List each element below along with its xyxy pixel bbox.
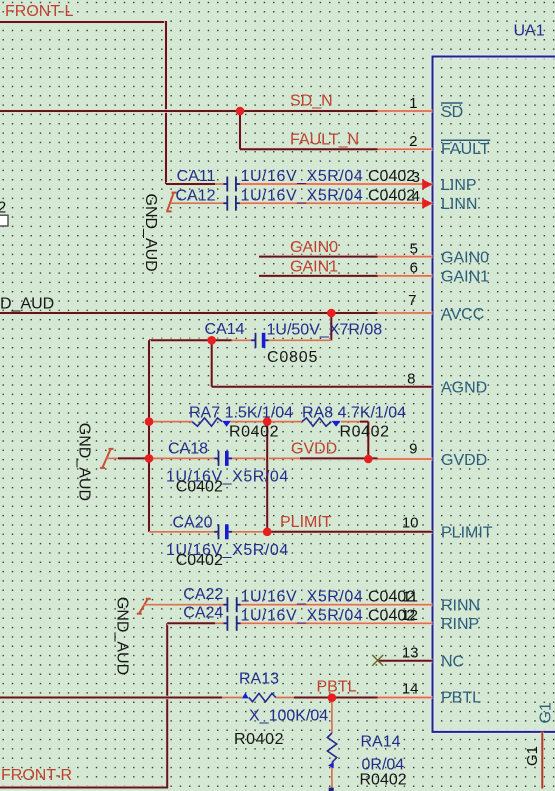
- svg-text:1U/16V_X5R/04: 1U/16V_X5R/04: [241, 187, 364, 204]
- svg-text:RA7 1.5K/1/04: RA7 1.5K/1/04: [189, 405, 293, 422]
- pin 2 FAULT: [378, 148, 433, 151]
- net label GND_AUD vertical middle: [76, 423, 93, 501]
- pin number 6: [410, 260, 418, 277]
- svg-text:CA18: CA18: [168, 441, 208, 458]
- IC UA1 body outline: [433, 57, 555, 732]
- wire RA14 top lead: [331, 698, 333, 733]
- junction node CA14/AGND: [207, 336, 216, 345]
- pin number 10: [402, 515, 419, 532]
- svg-text:8: 8: [407, 371, 415, 388]
- svg-text:CA20: CA20: [172, 514, 212, 531]
- pin name RINP: [441, 616, 479, 633]
- wire AVCC net from left: [0, 311, 378, 315]
- wire CA20 leads PLIMIT row: [149, 531, 267, 533]
- value RA14 0R/04: [362, 756, 405, 773]
- wire CA14 row left: [149, 338, 251, 342]
- svg-text:R0402: R0402: [360, 771, 407, 788]
- svg-text:CA11: CA11: [177, 168, 216, 185]
- wire FRONT-L vertical drop: [164, 21, 168, 184]
- wire AGND branch to pin 8: [212, 340, 433, 386]
- footprint CA22 C0402: [368, 589, 415, 606]
- svg-text:C0402: C0402: [368, 187, 415, 204]
- svg-text:1: 1: [409, 95, 417, 112]
- wire CA14 right lead: [269, 339, 332, 341]
- pin 6 GAIN1: [378, 274, 433, 277]
- svg-text:7: 7: [408, 292, 416, 309]
- designator CA20: [172, 514, 212, 531]
- wire RA13 right lead and to pin 14: [276, 697, 378, 699]
- pin number 9: [409, 441, 417, 458]
- wire FRONT-R vertical and bottom: [0, 623, 168, 787]
- svg-text:G1: G1: [538, 702, 555, 723]
- svg-text:GAIN0: GAIN0: [441, 249, 489, 266]
- svg-text:1U/50V_X7R/08: 1U/50V_X7R/08: [267, 322, 383, 339]
- svg-text:2: 2: [409, 133, 417, 150]
- pin number 7: [408, 292, 416, 309]
- pin name GVDD: [441, 452, 487, 469]
- pin 10 PLIMIT: [378, 530, 433, 533]
- capacitor CA14: [251, 333, 268, 348]
- resistor RA13: [242, 693, 276, 702]
- svg-text:RA13: RA13: [239, 671, 279, 688]
- pin name PBTL: [441, 689, 481, 706]
- net label D_AUD cut at left edge: [0, 296, 54, 313]
- footprint CA24 C0402: [368, 607, 415, 624]
- footprint CA12 C0402: [368, 187, 415, 204]
- wire GAIN1 net: [259, 274, 378, 278]
- value CA20 1U/16V_X5R/04: [166, 542, 289, 559]
- pin 9 GVDD: [378, 458, 433, 461]
- svg-text:RA8 4.7K/1/04: RA8 4.7K/1/04: [302, 405, 406, 422]
- wire RA8 right lead to corner: [341, 422, 368, 459]
- footprint RA7 R0402: [229, 423, 279, 440]
- junction node mid rail/PLIMIT: [263, 528, 272, 537]
- pin number 12: [401, 607, 418, 624]
- svg-text:13: 13: [402, 645, 419, 662]
- pin 1 SD: [378, 110, 433, 113]
- svg-text:SD: SD: [441, 104, 463, 121]
- net port FRONT-R label: [1, 767, 72, 784]
- net label SD_N: [290, 93, 333, 110]
- junction node rail/GVDD row: [145, 454, 154, 463]
- value CA11 1U/16V_X5R/04: [241, 168, 364, 185]
- pin 12 RINP: [241, 622, 433, 625]
- pin name FAULT with overline: [441, 140, 490, 158]
- svg-text:CA14: CA14: [204, 321, 244, 338]
- ground symbol GND_AUD bottom: [137, 599, 151, 614]
- net label FAULT_N: [290, 131, 359, 148]
- capacitor CA20: [214, 524, 232, 539]
- pin name NC: [441, 654, 464, 671]
- svg-text:1U/16V_X5R/04: 1U/16V_X5R/04: [241, 589, 364, 606]
- wire CA22 left lead from ground: [144, 604, 224, 606]
- svg-text:PBTL: PBTL: [317, 679, 357, 696]
- svg-text:GAIN1: GAIN1: [441, 269, 489, 286]
- wire CA18 leads GVDD row: [149, 457, 378, 459]
- pin number 8: [407, 371, 415, 388]
- svg-text:FAULT: FAULT: [441, 141, 490, 158]
- designator CA12: [175, 187, 215, 204]
- svg-text:R0402: R0402: [234, 731, 284, 748]
- wire CA24 left segment: [167, 621, 223, 625]
- junction node RA7/RA8 mid: [263, 417, 272, 426]
- no-ERC marker pin 13: [372, 655, 383, 666]
- ground symbol GND_AUD middle: [100, 449, 114, 468]
- pin number 11: [402, 589, 418, 606]
- resistor RA14: [327, 733, 336, 768]
- wire FRONT-L horizontal: [0, 20, 166, 24]
- svg-text:2: 2: [0, 200, 6, 217]
- capacitor CA24: [223, 616, 240, 631]
- wire CA11 left segment: [166, 182, 223, 186]
- ground symbol GND_AUD top: [166, 193, 176, 212]
- svg-text:3: 3: [412, 169, 420, 186]
- wire RA14 bottom lead: [331, 763, 333, 791]
- resistor RA7: [192, 418, 231, 427]
- footprint CA11 C0402: [368, 168, 415, 185]
- connector stub cut at left edge: [0, 200, 8, 226]
- svg-text:PLIMIT: PLIMIT: [441, 525, 493, 542]
- wire left rail vertical: [147, 340, 151, 532]
- input arrow pin 3: [422, 179, 433, 190]
- designator label UA1: [514, 23, 545, 40]
- svg-text:PLIMIT: PLIMIT: [280, 514, 332, 531]
- footprint CA18 C0402: [176, 479, 223, 496]
- svg-text:5: 5: [410, 240, 418, 257]
- svg-text:GVDD: GVDD: [291, 440, 337, 457]
- wire AVCC branch down to CA14: [329, 313, 333, 340]
- pin name SD with overline: [441, 103, 463, 121]
- svg-text:GND_AUD: GND_AUD: [114, 597, 131, 675]
- input arrow pin 4: [422, 198, 433, 209]
- svg-text:FAULT_N: FAULT_N: [290, 131, 359, 148]
- capacitor CA22: [223, 597, 240, 612]
- pin name PLIMIT: [441, 525, 493, 542]
- designator CA22: [183, 586, 223, 603]
- junction node RA8/GVDD: [364, 455, 373, 464]
- svg-text:CA22: CA22: [183, 586, 223, 603]
- pin 13 NC: [378, 659, 433, 662]
- capacitor CA18: [214, 451, 232, 466]
- value CA18 1U/16V_X5R/04: [166, 468, 289, 485]
- svg-text:D_AUD: D_AUD: [0, 296, 54, 313]
- svg-text:1U/16V_X5R/04: 1U/16V_X5R/04: [241, 168, 364, 185]
- net label GND_AUD vertical bottom: [114, 597, 131, 675]
- svg-text:G1: G1: [524, 746, 541, 766]
- svg-text:9: 9: [409, 441, 417, 458]
- wire pin 13 stub dark overlay: [378, 659, 433, 663]
- wire CA12 left lead from ground: [171, 202, 224, 204]
- svg-text:LINP: LINP: [441, 177, 477, 194]
- svg-text:6: 6: [410, 260, 418, 277]
- svg-text:PBTL: PBTL: [441, 689, 481, 706]
- value CA12 1U/16V_X5R/04: [241, 187, 364, 204]
- designator RA14: [361, 734, 401, 751]
- net port FRONT-L label: [5, 3, 74, 20]
- svg-text:C0402: C0402: [176, 479, 223, 496]
- pin name AGND: [441, 380, 487, 397]
- svg-text:GAIN0: GAIN0: [290, 239, 338, 256]
- net label GVDD: [291, 440, 337, 457]
- footprint CA14 C0805: [267, 349, 318, 366]
- svg-text:CA24: CA24: [183, 605, 223, 622]
- svg-text:RA14: RA14: [361, 734, 401, 751]
- pin number G1 vertical: [524, 746, 541, 766]
- designator CA11: [177, 168, 216, 185]
- wire PBTL net from left: [0, 696, 242, 700]
- pin 4 LINN: [240, 202, 433, 205]
- pin number 3: [412, 169, 420, 186]
- svg-text:FRONT-L: FRONT-L: [5, 3, 74, 20]
- pin 11 RINN: [241, 603, 433, 606]
- junction node rail/RA7: [145, 417, 154, 426]
- pin G1 bottom: [541, 732, 544, 789]
- wire mid rail vertical: [265, 422, 269, 532]
- svg-text:GAIN1: GAIN1: [290, 258, 338, 275]
- svg-text:R0402: R0402: [229, 423, 279, 440]
- pin 3 LINP: [240, 183, 433, 186]
- designator value RA7: [189, 405, 293, 422]
- pin 8 AGND: [378, 385, 433, 388]
- capacitor CA12: [223, 196, 240, 211]
- svg-text:AVCC: AVCC: [441, 306, 484, 323]
- designator CA18: [168, 441, 208, 458]
- net label GND_AUD vertical top: [142, 194, 159, 272]
- wire RA7 leads: [149, 421, 302, 423]
- pin name RINN: [441, 598, 480, 615]
- bottom edge capacitor plate stub: [329, 788, 334, 791]
- pin number 4: [412, 188, 420, 205]
- wire ground middle to rail: [107, 457, 150, 459]
- net label GAIN0: [290, 239, 338, 256]
- pin name LINP: [441, 177, 477, 194]
- svg-text:1U/16V_X5R/04: 1U/16V_X5R/04: [241, 607, 364, 624]
- designator RA13: [239, 671, 279, 688]
- pin name LINN: [441, 196, 477, 213]
- svg-text:C0402: C0402: [368, 168, 415, 185]
- pin number 14: [402, 680, 419, 697]
- capacitor CA11: [223, 177, 240, 192]
- svg-text:GND_AUD: GND_AUD: [76, 423, 93, 501]
- svg-text:LINN: LINN: [441, 196, 477, 213]
- pin name GAIN0: [441, 249, 489, 266]
- svg-text:14: 14: [402, 680, 419, 697]
- pin number 1: [409, 95, 417, 112]
- svg-text:UA1: UA1: [514, 23, 545, 40]
- resistor RA8: [302, 418, 341, 427]
- pin 7 AVCC: [378, 312, 433, 315]
- designator CA14: [204, 321, 244, 338]
- value CA24 1U/16V_X5R/04: [241, 607, 364, 624]
- svg-text:11: 11: [402, 589, 418, 606]
- svg-text:12: 12: [401, 607, 418, 624]
- pin number 2: [409, 133, 417, 150]
- pin number 13: [402, 645, 419, 662]
- pin number 5: [410, 240, 418, 257]
- wire PLIMIT to pin 10: [267, 530, 432, 534]
- svg-text:SD_N: SD_N: [290, 93, 333, 110]
- pin 14 PBTL: [378, 696, 433, 699]
- svg-text:X_100K/04: X_100K/04: [249, 708, 328, 725]
- designator CA24: [183, 605, 223, 622]
- value CA22 1U/16V_X5R/04: [241, 589, 364, 606]
- svg-text:RINP: RINP: [441, 616, 479, 633]
- pin name G1 vertical: [538, 702, 555, 723]
- svg-text:C0805: C0805: [267, 349, 318, 366]
- svg-text:10: 10: [402, 515, 419, 532]
- net label PLIMIT: [280, 514, 332, 531]
- footprint RA8 R0402: [340, 423, 390, 440]
- svg-text:R0402: R0402: [340, 423, 390, 440]
- pin 5 GAIN0: [378, 255, 433, 258]
- svg-text:4: 4: [412, 188, 420, 205]
- wire FAULT_N branch: [240, 111, 378, 149]
- net label GAIN1: [290, 258, 338, 275]
- svg-text:FRONT-R: FRONT-R: [1, 767, 72, 784]
- svg-text:RINN: RINN: [441, 598, 480, 615]
- pin name AVCC: [441, 306, 484, 323]
- svg-text:GND_AUD: GND_AUD: [142, 194, 159, 272]
- pin name GAIN1: [441, 269, 489, 286]
- junction node AVCC/CA14: [327, 309, 336, 318]
- designator value RA8: [302, 405, 406, 422]
- wire GAIN0 net: [259, 255, 378, 259]
- footprint RA13 R0402: [234, 731, 284, 748]
- wire SD_N net: [0, 109, 378, 113]
- svg-text:C0402: C0402: [176, 552, 223, 569]
- svg-text:CA12: CA12: [175, 187, 215, 204]
- value RA13 X_100K/04: [249, 708, 328, 725]
- footprint CA20 C0402: [176, 552, 223, 569]
- junction node SD_N/FAULT_N: [236, 107, 245, 116]
- value CA14 1U/50V_X7R/08: [267, 322, 383, 339]
- svg-text:AGND: AGND: [441, 380, 487, 397]
- junction node PBTL/RA14: [328, 693, 337, 702]
- footprint RA14 R0402: [360, 771, 407, 788]
- net label PBTL: [317, 679, 357, 696]
- svg-text:NC: NC: [441, 654, 464, 671]
- svg-text:GVDD: GVDD: [441, 452, 487, 469]
